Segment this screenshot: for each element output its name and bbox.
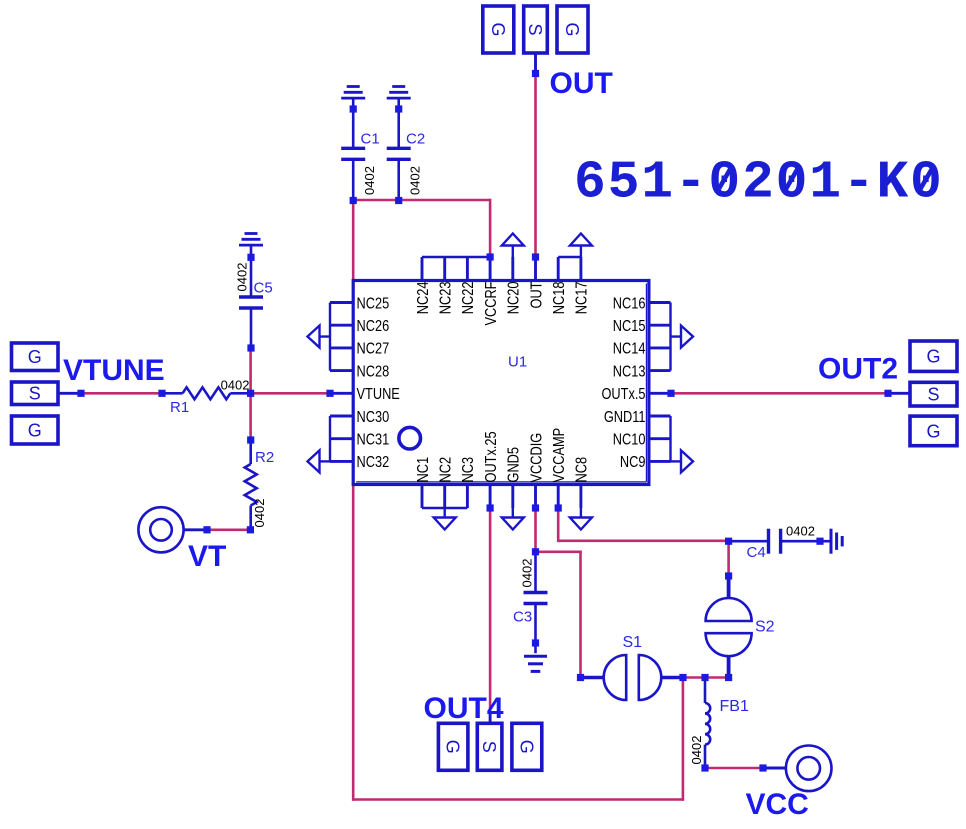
VTUNE net label [63,354,165,387]
junction R2 bottom [247,526,254,533]
pad VTUNE S [12,382,59,405]
junction R1 left [158,390,165,397]
ground above C2 [387,87,411,99]
pin NC2 label [437,457,455,483]
wire OUT2 net [671,392,888,395]
svg-text:G: G [28,347,42,367]
pin NC23 stub [443,257,446,282]
junction S1 right [679,674,686,681]
svg-text:651-0201-K0: 651-0201-K0 [574,153,944,213]
svg-text:FB1: FB1 [720,698,749,715]
C4 label [747,544,766,561]
svg-text:NC28: NC28 [357,363,390,381]
wire big loop bottom horizontal [352,798,684,801]
capacitor C3 [524,552,548,653]
svg-text:S: S [29,384,41,404]
pin NC26 stub [330,324,352,327]
pin NC22 stub [466,257,469,282]
pin NC30 label [357,409,390,427]
pin NC1 stub [421,483,424,508]
junction VCCDIG pin [532,504,539,511]
pin NC9 label [620,454,646,472]
svg-text:OUTx.5: OUTx.5 [601,386,645,404]
svg-text:R1: R1 [170,399,189,416]
pin NC27 stub [330,346,352,349]
junction C2 bottom [395,197,402,204]
R2 label [255,449,274,466]
svg-text:0402: 0402 [786,524,815,539]
wire VCCAMP to C4 node [558,539,728,542]
pin NC18 label [551,282,569,315]
C2 label [406,131,425,148]
pin GND11 label [604,409,646,427]
pin NC1 label [415,457,433,483]
pin NC23 label [437,282,455,315]
no-connect arrow above NC17 [570,234,592,258]
svg-text:G: G [488,22,508,36]
OUT pad stub [534,53,537,74]
connector VT [138,507,207,552]
pin NC3 label [460,457,478,483]
R1 value 0402 [221,378,250,393]
svg-text:0402: 0402 [362,166,377,195]
svg-text:G: G [926,421,940,441]
pin NC15 label [613,318,646,336]
junction C3 bottom [532,639,539,646]
svg-text:C5: C5 [254,280,273,297]
C1 label [361,131,380,148]
pin OUTx.25 label [483,431,501,482]
svg-text:S: S [525,23,545,35]
svg-text:S: S [479,741,499,753]
svg-text:NC15: NC15 [613,318,646,336]
pad VTUNE G1 [12,343,59,371]
svg-text:NC31: NC31 [357,431,390,449]
junction S2 bottom [725,674,732,681]
pin NC20 label [505,282,523,315]
wire S1 to FB1 node [683,676,705,679]
junction C1 bottom [350,197,357,204]
ground above C5 [239,234,263,246]
S2 label [755,619,775,636]
wire VCCRF net horizontal C1-C2-corner [352,199,490,202]
ground arrow below GND5 [502,508,524,530]
svg-text:C3: C3 [513,609,532,626]
pin NC32 label [357,454,390,472]
svg-text:OUT4: OUT4 [424,692,504,725]
svg-text:NC23: NC23 [437,282,455,315]
pin NC28 label [357,363,390,381]
svg-text:NC17: NC17 [573,282,591,315]
svg-text:OUT2: OUT2 [818,352,898,385]
pin VCCRF label [483,281,501,325]
pin NC8 stub [579,483,582,508]
pin NC3 stub [466,483,469,508]
pin NC16 label [613,295,646,313]
C1 value 0402 [362,166,377,195]
no-connect arrow left lower [308,450,331,472]
junction OUTx.5 pin [667,390,674,397]
svg-text:NC24: NC24 [415,282,433,315]
svg-text:C4: C4 [747,544,766,561]
C2 value 0402 [408,166,423,195]
pin NC14 label [613,340,646,358]
svg-text:G: G [926,347,940,367]
ground below C3 [524,656,547,671]
pin NC13 stub [650,369,671,372]
junction C4 right [816,538,823,545]
wire VTUNE pad to R1 [81,392,162,395]
pin NC9 stub [650,460,671,463]
svg-text:S1: S1 [623,634,643,651]
wire FB1 node to S2 [705,676,729,679]
OUT4 net label [424,692,504,725]
wire down to S1 [579,551,582,678]
bracket left upper NC25-NC28 [329,303,331,371]
wire big loop left vertical upper [352,200,355,281]
svg-text:0402: 0402 [221,378,250,393]
svg-text:VTUNE: VTUNE [63,354,165,387]
pin NC17 label [573,282,591,315]
bracket left lower NC30-NC32 [329,416,331,461]
C4 value 0402 [786,524,815,539]
svg-text:NC32: NC32 [357,454,390,472]
junction S1 left [577,674,584,681]
pin NC31 stub [330,437,352,440]
pin OUTx.5 stub [650,392,671,395]
junction C5 bottom [247,344,254,351]
op-amp U1 body [353,281,649,485]
capacitor C4 [732,529,817,554]
pad OUT4 G2 [512,723,542,770]
svg-text:0402: 0402 [689,736,704,765]
pin NC24 stub [421,257,424,282]
svg-text:VCCAMP: VCCAMP [551,428,569,483]
junction VTUNE node [247,390,254,397]
pin NC17 stub [579,257,582,282]
pin OUT label [528,281,546,308]
svg-text:NC27: NC27 [357,340,390,358]
pin NC14 stub [650,346,671,349]
wire OUT4 net vertical [489,508,492,714]
wire C4 node down to S2 [727,541,730,576]
svg-text:R2: R2 [255,449,274,466]
svg-text:G: G [28,420,42,440]
junction VTUNE pad [77,390,84,397]
wire VCCRF net vertical corner to pin [489,199,492,257]
pin GND5 label [505,447,523,483]
wire VTUNE node to pin [251,392,330,395]
no-connect arrow above NC20 [502,234,524,258]
pin NC20 stub [511,257,514,282]
junction S2 top [725,572,732,579]
U1 refdes label [508,354,527,371]
svg-text:NC22: NC22 [460,282,478,315]
VCC net label [746,788,809,821]
wire big loop right vertical [682,678,685,801]
pin NC10 label [613,431,646,449]
pin OUTx.25 stub [489,483,492,508]
pad OUT S [524,6,548,53]
pin NC28 stub [330,369,352,372]
OUT2 pad stub [888,392,910,395]
pin NC10 stub [650,437,671,440]
svg-text:OUT: OUT [528,281,546,308]
svg-text:NC9: NC9 [620,454,646,472]
pad OUT G2 [557,6,588,53]
pad OUT2 G2 [910,416,957,446]
wire OUT net vertical [534,75,537,257]
svg-text:S2: S2 [755,619,775,636]
bracket right upper NC16-NC13 [669,303,671,371]
jumper S2 [706,576,752,678]
svg-text:C1: C1 [361,131,380,148]
junction VCC pad [759,764,766,771]
no-connect arrow right upper [671,326,694,348]
wire FB1 to VCC [705,767,763,770]
svg-text:GND5: GND5 [505,447,523,483]
junction C1 top [350,105,357,112]
svg-text:NC2: NC2 [437,457,455,483]
svg-text:S: S [927,385,939,405]
svg-text:C2: C2 [406,131,425,148]
svg-text:OUTx.25: OUTx.25 [483,431,501,482]
pin GND11 stub [650,415,671,418]
inductor FB1 [705,678,710,769]
svg-text:NC18: NC18 [551,282,569,315]
no-connect arrow below NC2 [434,508,456,530]
bracket right lower GND11-NC9 [669,416,671,461]
svg-text:NC13: NC13 [613,363,646,381]
R2 value 0402 [252,499,267,528]
junction R2 top [247,436,254,443]
pin VTUNE label [357,386,401,404]
C3 label [513,609,532,626]
junction OUT2 pad [884,390,891,397]
svg-text:OUT: OUT [550,67,613,100]
pin NC15 stub [650,324,671,327]
VTUNE pad stub [58,392,81,395]
FB1 label [720,698,749,715]
OUT net label [550,67,613,100]
wire big loop left vertical lower [352,484,355,801]
wire VTUNE node down to R2 [249,393,252,440]
pin NC27 label [357,340,390,358]
resistor R1 [162,387,251,399]
svg-text:VCCRF: VCCRF [483,281,501,325]
pad VTUNE G2 [12,416,59,444]
capacitor C2 [387,98,411,200]
pin NC26 label [357,318,390,336]
bracket bottom NC1-NC3 [422,507,467,509]
pin NC13 label [613,363,646,381]
svg-text:NC14: NC14 [613,340,646,358]
wire R2 to VT [207,528,250,531]
junction OUT pin [532,253,539,260]
pad OUT4 G1 [438,723,468,770]
junction C5 top [247,254,254,261]
pin NC16 stub [650,301,671,304]
junction C3 top [532,548,539,555]
junction VT pad [203,526,210,533]
junction FB1 top [701,674,708,681]
pin VCCAMP stub [557,483,560,508]
pin VCCRF stub [489,257,492,282]
pin NC30 stub [330,415,352,418]
pin NC8 label [573,457,591,483]
pin NC24 label [415,282,433,315]
junction OUT pad [532,70,539,77]
svg-text:NC26: NC26 [357,318,390,336]
C3 value 0402 [520,559,535,588]
capacitor C1 [341,98,365,200]
svg-text:0402: 0402 [252,499,267,528]
junction OUTx.25 pin [487,504,494,511]
S1 label [623,634,643,651]
pad OUT4 S [477,723,502,770]
svg-text:0402: 0402 [520,559,535,588]
svg-text:NC16: NC16 [613,295,646,313]
svg-text:NC8: NC8 [573,457,591,483]
svg-text:VCCDIG: VCCDIG [528,433,546,483]
pin NC25 label [357,295,390,313]
ground right of C4 [831,529,842,554]
svg-text:NC20: NC20 [505,282,523,315]
OUT4 pad stub [489,713,492,723]
svg-text:VCC: VCC [746,788,809,821]
pin VCCDIG stub [534,483,537,508]
pin NC25 stub [330,301,352,304]
bracket top NC24-VCCRF [422,256,490,258]
svg-text:G: G [443,740,463,754]
pin OUTx.5 label [601,386,645,404]
svg-text:GND11: GND11 [604,409,646,427]
svg-text:NC3: NC3 [460,457,478,483]
svg-text:0402: 0402 [235,263,250,292]
svg-text:U1: U1 [508,354,527,371]
pad OUT G1 [483,6,514,53]
svg-text:NC10: NC10 [613,431,646,449]
pin VTUNE stub [330,392,352,395]
C4 ground lead [823,540,830,543]
svg-text:VT: VT [188,540,226,573]
svg-text:NC25: NC25 [357,295,390,313]
ground above C1 [341,87,365,99]
pin NC22 label [460,282,478,315]
resistor R2 [245,440,257,530]
pin NC18 stub [557,257,560,282]
junction FB1 bottom [701,764,708,771]
svg-text:VTUNE: VTUNE [357,386,401,404]
connector VCC [763,746,832,792]
junction C2 top [395,105,402,112]
pin VCCDIG label [528,433,546,483]
capacitor C5 [239,245,263,348]
wire C5 to VTUNE node [249,348,252,393]
pad OUT2 G1 [910,341,957,371]
pad OUT2 S [910,382,957,406]
junction VCCAMP pin [555,504,562,511]
wire VCCDIG to C3 [534,508,537,552]
svg-text:0402: 0402 [408,166,423,195]
wire VCCAMP down [557,508,560,542]
R1 label [170,399,189,416]
junction VCCRF [487,253,494,260]
no-connect arrow right lower [671,450,694,472]
jumper S1 [581,655,684,700]
title 651-0201-K0 [574,153,944,213]
no-connect arrow left upper [308,326,331,348]
pin OUT stub [534,257,537,282]
wire C3 node to right [536,550,582,553]
svg-text:NC1: NC1 [415,457,433,483]
bracket top NC18-NC17 [558,256,581,258]
C5 value 0402 [235,263,250,292]
junction C4 node [725,538,732,545]
no-connect arrow below NC8 [570,508,592,530]
OUT2 net label [818,352,898,385]
VT net label [188,540,226,573]
pin NC2 stub [443,483,446,508]
pin NC32 stub [330,460,352,463]
C5 label [254,280,273,297]
pin VCCAMP label [551,428,569,483]
svg-text:G: G [516,740,536,754]
U1 pin-1 marker circle [399,427,421,449]
svg-text:G: G [562,22,582,36]
pin NC31 label [357,431,390,449]
junction VTUNE pin [326,390,333,397]
FB1 value 0402 [689,736,704,765]
svg-text:NC30: NC30 [357,409,390,427]
pin GND5 stub [511,483,514,508]
